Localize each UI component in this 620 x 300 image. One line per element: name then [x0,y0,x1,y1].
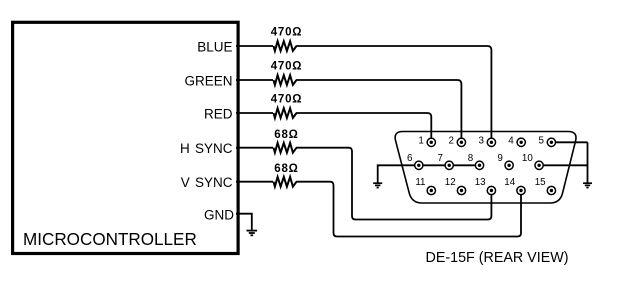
wire R3 to J1 pin 1 [296,113,431,142]
svg-text:5: 5 [538,135,544,146]
wire J1 pin 10 to ground [539,164,587,166]
wire R5 to J1 pin 14 [296,182,521,237]
ground (pins 5,10) [583,183,592,187]
pin 1 [427,138,435,146]
svg-text:470Ω: 470Ω [271,27,303,39]
svg-text:14: 14 [504,177,515,188]
svg-text:11: 11 [415,177,425,188]
svg-text:7: 7 [437,153,442,164]
svg-text:8: 8 [468,153,474,164]
svg-text:DE-15F (REAR VIEW): DE-15F (REAR VIEW) [426,250,569,266]
svg-text:4: 4 [508,135,514,146]
wire U1 GND to ground [236,214,252,230]
svg-text:BLUE: BLUE [197,39,232,54]
connector J1 DE-15F shell [395,132,576,204]
pin 4 [517,138,525,146]
wire J1 pin 5 to ground [551,141,587,143]
pin 5 [547,138,555,146]
wire ground stem (pins 5,10) [587,142,589,182]
wire U1 BLUE to R1 [236,45,273,47]
wire U1 RED to R3 [236,112,273,114]
svg-text:15: 15 [535,177,546,188]
svg-text:MICROCONTROLLER: MICROCONTROLLER [23,230,197,249]
svg-text:68Ω: 68Ω [274,129,298,141]
svg-text:10: 10 [522,153,533,164]
microcontroller U1 [13,22,239,253]
resistor R2 [274,75,297,85]
pin 11 [427,186,435,194]
svg-text:V SYNC: V SYNC [181,175,233,190]
pin 2 [457,138,465,146]
svg-text:470Ω: 470Ω [271,61,303,73]
wire U1 H SYNC to R4 [236,147,273,149]
pin 12 [457,186,465,194]
svg-text:RED: RED [204,106,233,121]
svg-text:GND: GND [204,208,234,223]
svg-text:2: 2 [448,135,453,146]
ground (microcontroller GND) [247,231,258,236]
wire R4 to J1 pin 13 [296,148,491,220]
svg-text:3: 3 [478,135,484,146]
resistor R3 [274,108,297,118]
pin 9 [505,161,513,169]
svg-text:68Ω: 68Ω [274,163,298,175]
pin 3 [487,138,495,146]
svg-text:GREEN: GREEN [184,73,232,88]
pin 14 [517,186,525,194]
svg-text:470Ω: 470Ω [271,94,303,106]
wire U1 GREEN to R2 [236,79,273,81]
pin 13 [487,186,495,194]
svg-text:13: 13 [475,177,486,188]
wire U1 V SYNC to R5 [236,181,273,183]
wire R2 to J1 pin 2 [296,80,461,142]
resistor R1 [274,41,297,51]
resistor R5 [274,177,297,187]
resistor R4 [274,143,297,153]
ground (pins 6,7,8) [373,183,382,187]
svg-text:H SYNC: H SYNC [180,141,233,156]
pin 15 [547,186,555,194]
pin 10 [535,161,543,169]
svg-text:9: 9 [497,153,502,164]
wire J1 pins 6-7-8 to ground [378,165,480,182]
wire R1 to J1 pin 3 [296,46,491,142]
pin 7 [445,161,453,169]
pin 6 [415,161,423,169]
svg-text:6: 6 [407,153,413,164]
svg-text:1: 1 [418,135,423,146]
svg-text:12: 12 [445,177,456,188]
pin 8 [475,161,483,169]
